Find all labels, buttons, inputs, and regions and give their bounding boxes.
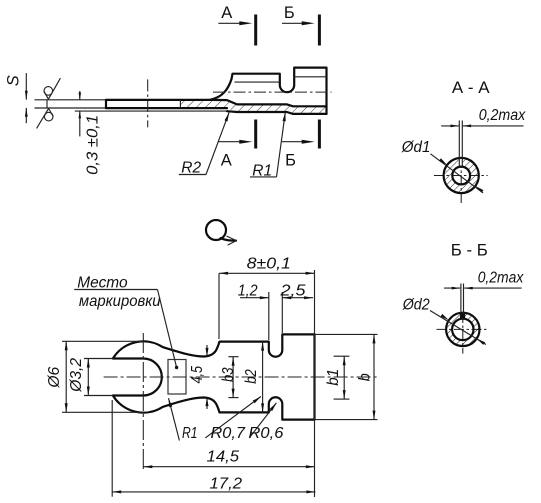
svg-text:Б - Б: Б - Б	[451, 241, 488, 259]
svg-text:маркировки: маркировки	[79, 293, 161, 310]
svg-text:R0,7: R0,7	[211, 425, 247, 442]
svg-text:Ød2: Ød2	[402, 296, 430, 313]
svg-text:b1: b1	[325, 369, 342, 386]
svg-text:А - А: А - А	[452, 79, 490, 97]
svg-text:b2: b2	[243, 369, 260, 384]
svg-text:R0,6: R0,6	[249, 425, 284, 442]
svg-text:14,5: 14,5	[207, 449, 240, 466]
svg-text:8±0,1: 8±0,1	[247, 255, 291, 272]
svg-text:R2: R2	[181, 160, 201, 177]
svg-text:Б: Б	[284, 4, 295, 22]
svg-text:b: b	[357, 373, 374, 381]
svg-text:А: А	[221, 4, 232, 22]
svg-text:Место: Место	[77, 274, 128, 291]
svg-text:S: S	[4, 75, 22, 86]
svg-text:Ø3,2: Ø3,2	[68, 358, 85, 393]
svg-text:1,2: 1,2	[238, 283, 258, 300]
svg-text:R1: R1	[252, 162, 272, 179]
svg-text:4,5: 4,5	[189, 366, 206, 384]
svg-text:0,2max: 0,2max	[479, 107, 527, 124]
svg-text:2,5: 2,5	[279, 283, 306, 300]
svg-text:b3: b3	[220, 367, 237, 382]
svg-text:А: А	[221, 152, 232, 170]
svg-text:Б: Б	[285, 152, 296, 170]
svg-text:0,3 ±0,1: 0,3 ±0,1	[84, 115, 101, 175]
svg-text:R1: R1	[182, 425, 198, 442]
svg-text:Ød1: Ød1	[401, 139, 431, 156]
svg-text:0,2max: 0,2max	[478, 269, 525, 286]
svg-text:Ø6: Ø6	[46, 366, 63, 388]
svg-text:17,2: 17,2	[210, 475, 243, 492]
